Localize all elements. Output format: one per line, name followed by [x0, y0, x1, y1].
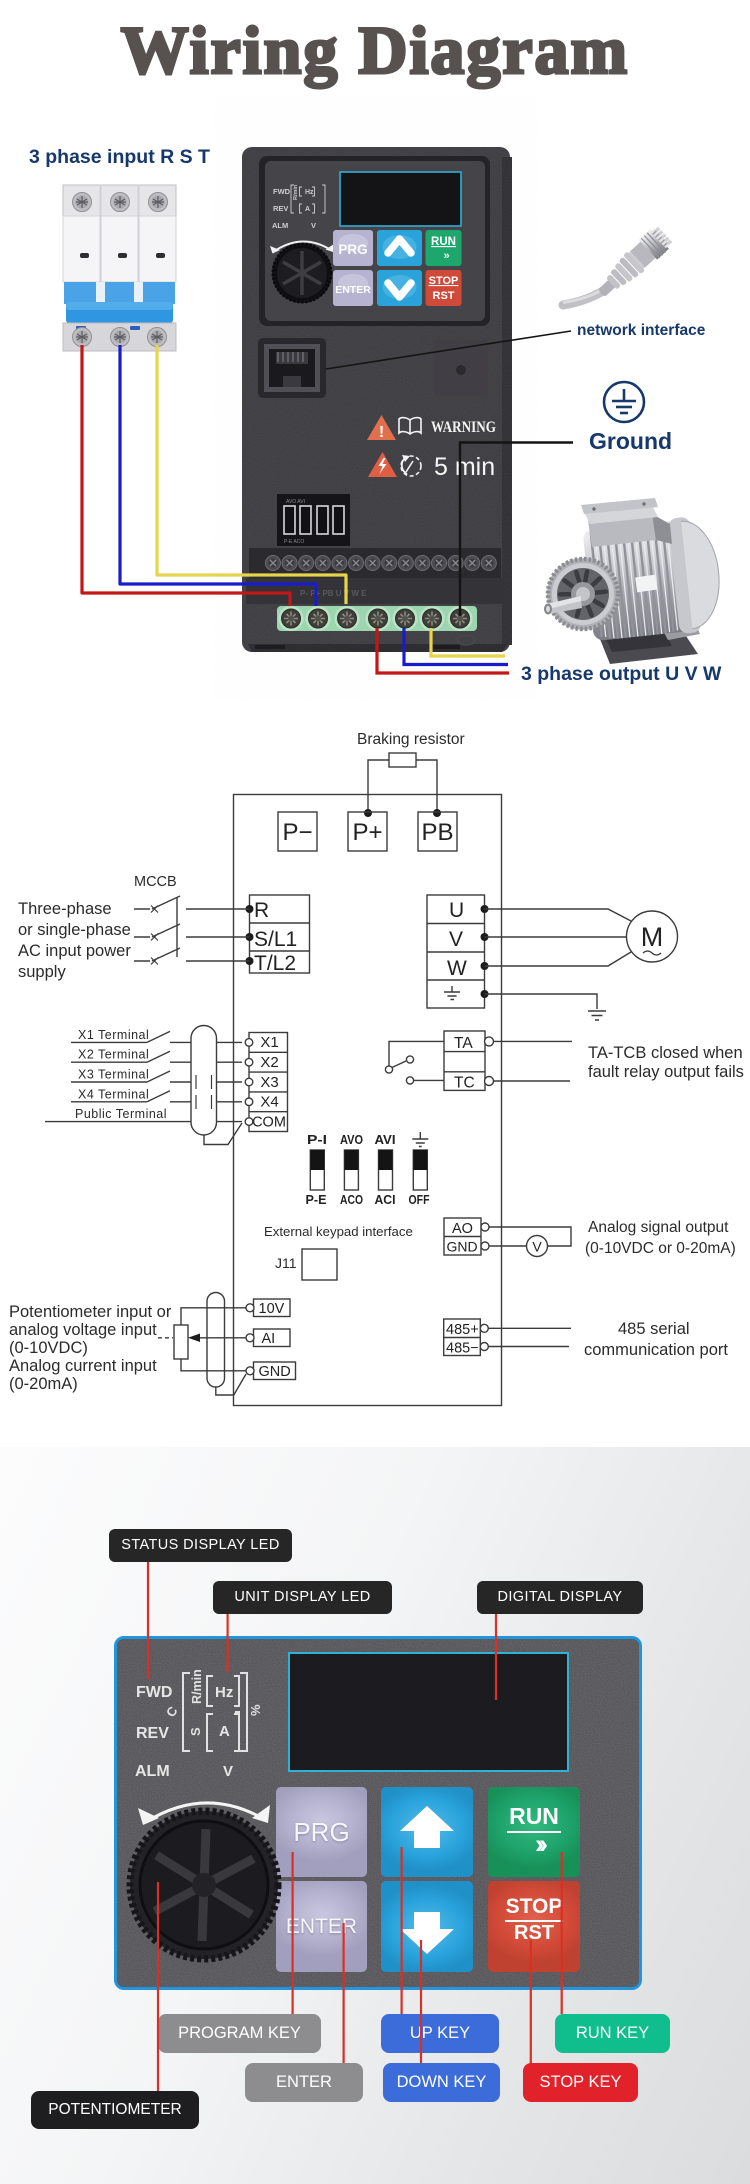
svg-text:communication port: communication port — [584, 1341, 728, 1359]
svg-text:W: W — [447, 957, 467, 980]
svg-text:AVI: AVI — [375, 1132, 396, 1147]
svg-text:(0-10VDC or 0-20mA): (0-10VDC or 0-20mA) — [585, 1240, 736, 1257]
svg-text:R/min: R/min — [190, 1669, 204, 1704]
svg-text:Potentiometer input or: Potentiometer input or — [9, 1303, 172, 1321]
svg-text:TA-TCB closed when: TA-TCB closed when — [588, 1044, 743, 1062]
svg-text:!: ! — [379, 424, 384, 441]
PRG key — [276, 1787, 367, 1877]
STOP/RST key — [488, 1881, 580, 1972]
svg-text:X2 Terminal: X2 Terminal — [78, 1048, 149, 1062]
svg-text:P-E ACO: P-E ACO — [284, 539, 304, 545]
ENTER key — [276, 1881, 367, 1972]
svg-text:REV: REV — [273, 204, 288, 213]
svg-text:TC: TC — [454, 1075, 475, 1092]
svg-text:COM: COM — [252, 1115, 286, 1131]
ground symbol — [604, 382, 644, 422]
network pointer line — [326, 331, 571, 369]
inverter main box — [234, 795, 502, 1406]
label STOP KEY — [523, 2063, 638, 2102]
wire W ground — [485, 994, 598, 1009]
node R — [246, 905, 254, 913]
svg-text:%: % — [248, 1704, 263, 1716]
node S/L1 — [246, 933, 254, 941]
svg-text:FWD: FWD — [273, 187, 291, 196]
warning row 1 — [367, 415, 496, 441]
red pointer lines — [148, 1562, 562, 2091]
svg-text:P−: P− — [282, 819, 312, 846]
svg-text:R: R — [254, 899, 269, 922]
svg-text:PB: PB — [421, 819, 453, 846]
label PROGRAM KEY — [158, 2014, 321, 2053]
green terminal block — [277, 606, 477, 631]
svg-text:P- P+ PB U V W E: P- P+ PB U V W E — [300, 589, 367, 598]
label STATUS DISPLAY LED — [109, 1529, 292, 1562]
wires U V W to motor — [485, 909, 632, 921]
ribbed body — [582, 514, 724, 643]
braking resistor — [357, 731, 465, 817]
FWD/REV/ALM cluster — [272, 184, 316, 230]
warning row 2 — [368, 452, 495, 481]
down arrow glyph — [400, 1912, 454, 1954]
svg-text:ALM: ALM — [272, 221, 288, 230]
svg-text:(0-20mA): (0-20mA) — [9, 1375, 78, 1393]
voltmeter — [527, 1236, 548, 1257]
svg-text:X4 Terminal: X4 Terminal — [78, 1087, 149, 1101]
svg-text:GND: GND — [259, 1364, 291, 1380]
svg-text:AVO AVI: AVO AVI — [286, 499, 305, 505]
ground terminal symbol in block — [444, 986, 460, 1000]
svg-text:Hz: Hz — [305, 189, 314, 196]
svg-text:ACO: ACO — [340, 1192, 363, 1207]
RS485 terminals — [444, 1319, 481, 1357]
label ENTER — [245, 2063, 363, 2102]
svg-text:AO: AO — [452, 1221, 473, 1237]
buttons row1 — [333, 230, 462, 306]
svg-text:AC input power: AC input power — [18, 942, 131, 960]
svg-text:analog voltage input: analog voltage input — [9, 1321, 157, 1339]
knob — [130, 1811, 278, 1959]
svg-text:OFF: OFF — [409, 1192, 430, 1207]
top svg overlay (breaker, VFD, wires, photos, symbols) — [0, 0, 750, 700]
svg-text:V: V — [449, 928, 463, 951]
svg-text:X4: X4 — [260, 1094, 278, 1111]
digital display window — [288, 1652, 569, 1772]
svg-text:MCCB: MCCB — [134, 874, 177, 890]
svg-text:(0-10VDC): (0-10VDC) — [9, 1339, 88, 1357]
knob — [272, 243, 332, 303]
svg-text:Analog signal output: Analog signal output — [588, 1219, 729, 1236]
label RUN KEY — [555, 2014, 670, 2053]
junction box — [588, 514, 656, 547]
svg-text:PRG: PRG — [338, 242, 367, 257]
svg-text:AVO: AVO — [340, 1132, 363, 1147]
output terminal block U V W — [427, 895, 485, 1008]
svg-text:V: V — [532, 1239, 542, 1255]
input terminal block R S/L1 T/L2 — [250, 895, 310, 975]
svg-text:P+: P+ — [352, 819, 382, 846]
relay switch — [385, 1041, 444, 1084]
front fins ring — [547, 558, 619, 630]
svg-text:10V: 10V — [259, 1301, 285, 1317]
small screw row — [249, 548, 501, 578]
svg-text:supply: supply — [18, 963, 66, 981]
row2 — [333, 270, 373, 306]
display — [340, 172, 461, 226]
X terminal block — [249, 1033, 288, 1132]
terminal GND — [254, 1362, 296, 1380]
svg-text:Analog current input: Analog current input — [9, 1357, 157, 1375]
svg-text:ACI: ACI — [375, 1192, 396, 1207]
motor M — [627, 911, 678, 962]
svg-text:WARNING: WARNING — [431, 419, 496, 436]
svg-text:S/L1: S/L1 — [254, 928, 297, 951]
label DIGITAL DISPLAY — [477, 1581, 643, 1614]
svg-text:U: U — [449, 899, 464, 922]
terminal P+ box — [348, 812, 387, 851]
svg-text:J11: J11 — [275, 1255, 297, 1271]
ground symbol — [588, 1011, 606, 1020]
svg-text:X1: X1 — [260, 1034, 278, 1051]
ground symbol above OFF — [412, 1132, 428, 1147]
svg-text:485−: 485− — [446, 1341, 479, 1357]
4-slot connector — [277, 494, 350, 546]
svg-text:fault relay output fails: fault relay output fails — [588, 1063, 744, 1081]
cable bundle loop — [191, 1026, 217, 1136]
svg-text:Public Terminal: Public Terminal — [75, 1107, 167, 1121]
label POTENTIOMETER — [31, 2091, 199, 2129]
DOWN key — [381, 1881, 473, 1972]
ethernet cable photo — [563, 224, 674, 305]
svg-text:External keypad interface: External keypad interface — [264, 1224, 413, 1239]
svg-text:M: M — [641, 922, 664, 952]
side plate — [434, 340, 488, 396]
relay block TA TC — [444, 1031, 485, 1092]
label DOWN KEY — [383, 2063, 500, 2102]
terminal AI — [254, 1329, 291, 1347]
cable — [563, 288, 608, 305]
svg-text:5 min: 5 min — [434, 453, 495, 481]
svg-text:»: » — [443, 250, 449, 262]
terminal P&#8722; box — [278, 812, 317, 851]
label UNIT DISPLAY LED — [213, 1581, 392, 1614]
svg-text:ENTER: ENTER — [335, 284, 371, 296]
svg-text:485+: 485+ — [446, 1322, 479, 1338]
analog output AO GND — [444, 1218, 481, 1255]
svg-text:X3 Terminal: X3 Terminal — [78, 1068, 149, 1082]
svg-text:P-E: P-E — [306, 1192, 327, 1207]
svg-text:RUN: RUN — [431, 236, 456, 248]
svg-text:TA: TA — [454, 1035, 473, 1052]
svg-text:X2: X2 — [260, 1054, 278, 1071]
svg-text:X3: X3 — [260, 1074, 278, 1091]
RUN key — [488, 1787, 580, 1877]
UP key — [381, 1787, 473, 1877]
bottom lip detail — [457, 635, 475, 645]
up arrow glyph — [400, 1806, 454, 1848]
blue toggle band — [64, 282, 175, 304]
svg-text:RST: RST — [433, 290, 455, 302]
svg-text:A: A — [305, 206, 310, 213]
arc arrow over knob — [146, 1803, 262, 1822]
RJ45 port — [258, 338, 326, 398]
svg-text:GND: GND — [447, 1239, 478, 1255]
bracket cluster on panel — [183, 1673, 247, 1751]
svg-text:R/min: R/min — [293, 184, 299, 200]
svg-text:485 serial: 485 serial — [618, 1320, 690, 1338]
status LED labels — [136, 1684, 172, 1702]
svg-text:P-I: P-I — [307, 1132, 327, 1147]
AC input text — [18, 900, 131, 981]
arc arrow — [273, 241, 331, 252]
svg-text:T/L2: T/L2 — [254, 952, 296, 975]
svg-text:S: S — [188, 1727, 203, 1736]
svg-text:Three-phase: Three-phase — [18, 900, 112, 918]
bottom terminals — [63, 323, 176, 351]
svg-text:AI: AI — [262, 1331, 276, 1347]
input wires R S T — [82, 345, 346, 608]
label UP KEY — [381, 2014, 499, 2053]
label plate — [635, 575, 657, 593]
svg-text:X1 Terminal: X1 Terminal — [78, 1028, 149, 1042]
svg-text:Braking resistor: Braking resistor — [357, 731, 465, 748]
green screws redraw on top of wires — [279, 606, 473, 631]
DIP switches — [306, 1132, 430, 1207]
cable bundle loop 2 — [207, 1293, 225, 1388]
svg-text:or single-phase: or single-phase — [18, 921, 131, 939]
ground pointer wire — [460, 443, 573, 617]
terminal label row — [246, 578, 504, 604]
keypad recessed panel — [259, 156, 490, 326]
VFD body — [242, 147, 512, 652]
svg-text:C: C — [163, 1703, 181, 1720]
terminal PB box — [418, 812, 457, 851]
shaft — [547, 596, 582, 614]
node T/L2 — [246, 957, 254, 965]
svg-text:STOP: STOP — [429, 275, 459, 287]
output wires U V W — [377, 628, 509, 673]
potentiometer — [174, 1325, 188, 1359]
svg-text:V: V — [311, 221, 316, 230]
MCCB breaker switches — [134, 874, 250, 965]
terminal 10V — [254, 1299, 291, 1317]
screws — [73, 193, 168, 347]
dark base — [598, 624, 698, 664]
motor photo — [544, 498, 725, 664]
circuit breaker MCCB photo — [63, 185, 176, 351]
